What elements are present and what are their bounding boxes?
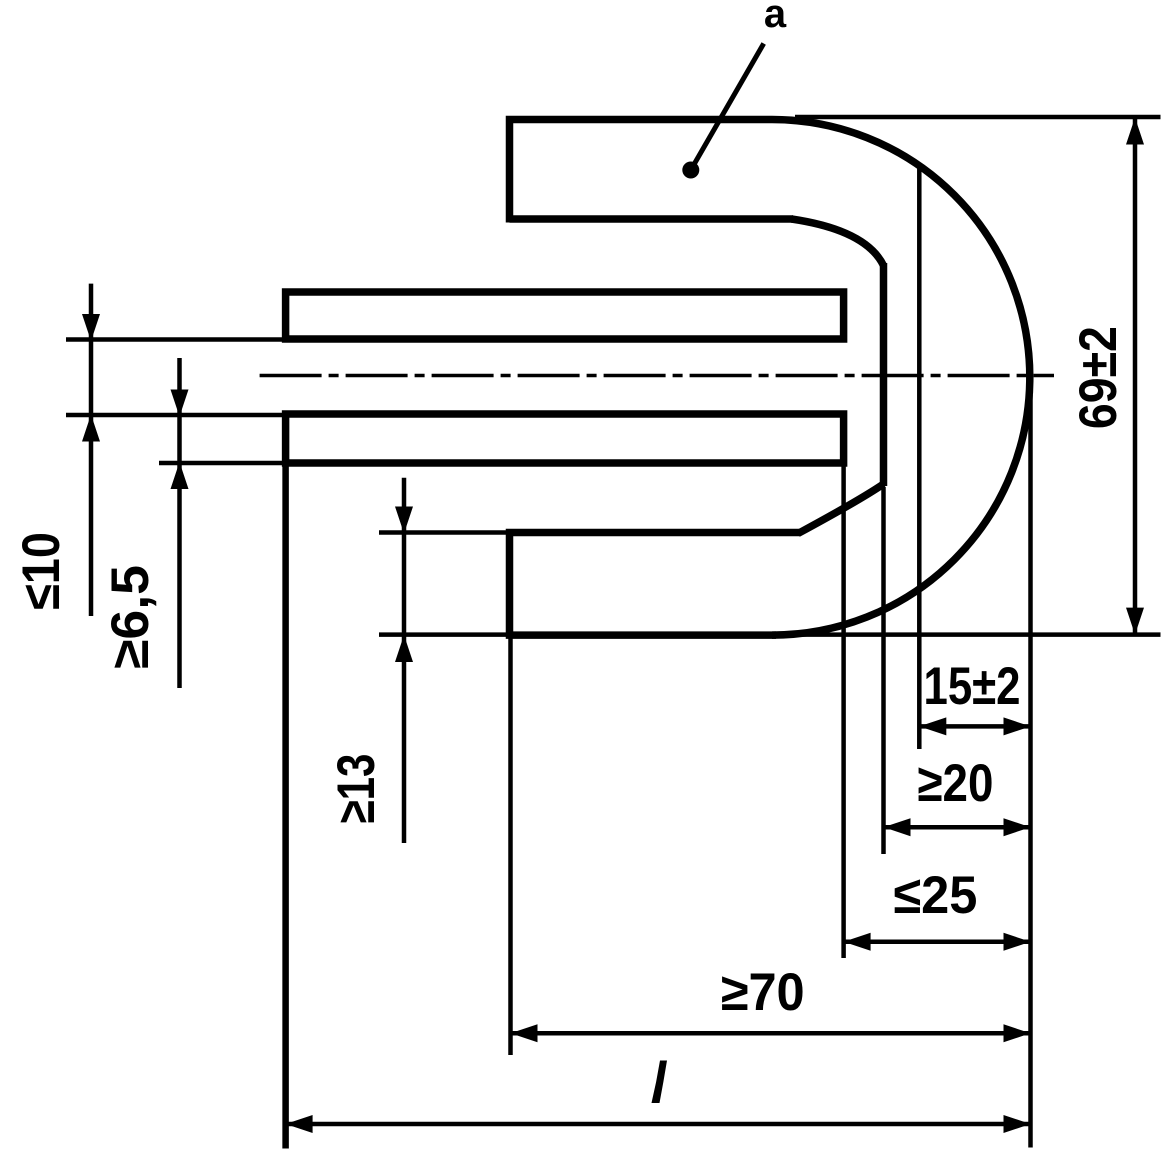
dimension line ≤10: [89, 284, 94, 616]
arrowhead 70 right: [1004, 1024, 1031, 1042]
arrowhead 69 bottom: [1126, 608, 1144, 635]
arrowhead 10 up: [82, 415, 100, 442]
extension line 70 left: [508, 638, 513, 1055]
arrowhead 20 right: [1004, 818, 1031, 836]
extension line 20 left: [881, 487, 886, 854]
dimension line l: [286, 1122, 1031, 1127]
left leg edge: [282, 414, 289, 1149]
extension line 13 top: [379, 530, 512, 535]
extension line top 69: [795, 115, 1161, 120]
svg-text:≥6,5: ≥6,5: [101, 565, 160, 669]
svg-text:≤25: ≤25: [893, 866, 977, 925]
svg-text:a: a: [764, 0, 787, 36]
arrowhead 13 up: [395, 635, 413, 662]
inner bottom fillet: [798, 484, 884, 534]
dimension line 69±2: [1133, 118, 1138, 635]
bottom arm of hook: [510, 533, 801, 636]
text l: [652, 1061, 668, 1104]
arrowhead l right: [1004, 1115, 1031, 1133]
outer arc of hook: [772, 120, 1030, 636]
extension line 10 top: [66, 337, 287, 342]
dimension line 15±2: [919, 724, 1030, 729]
extension line 25 left: [841, 466, 846, 958]
arrowhead 20 left: [884, 818, 911, 836]
arrowhead 10 down: [82, 314, 100, 341]
arrowhead 6,5 up: [171, 462, 189, 489]
arrowhead 13 down: [395, 507, 413, 534]
extension line 15 left: [917, 165, 922, 749]
extension line right common: [1028, 395, 1033, 1148]
arrowhead l left: [286, 1115, 313, 1133]
arrowhead 15 left: [919, 717, 946, 735]
svg-text:≥13: ≥13: [327, 754, 386, 824]
lower bar: [286, 414, 844, 463]
svg-text:15±2: 15±2: [924, 657, 1021, 716]
top arm of hook: [510, 120, 794, 223]
dimension line ≥70: [511, 1031, 1031, 1036]
extension line 10 bottom: [66, 413, 287, 418]
arrowhead 25 left: [844, 933, 871, 951]
leader line a: [682, 44, 763, 179]
inner top fillet: [792, 219, 884, 266]
svg-text:≥70: ≥70: [721, 963, 805, 1022]
arrowhead 6,5 down: [171, 390, 189, 417]
dimension line ≥20: [884, 825, 1031, 830]
dimension line ≥6,5: [177, 358, 182, 688]
svg-text:≥20: ≥20: [917, 754, 993, 813]
extension line 6,5 bottom: [159, 461, 287, 466]
arrowhead 25 right: [1004, 933, 1031, 951]
dimension line ≤25: [844, 940, 1031, 945]
upper bar: [286, 292, 844, 339]
svg-text:69±2: 69±2: [1069, 326, 1128, 429]
centerline: [260, 374, 1054, 378]
inner vertical edge: [880, 263, 888, 486]
arrowhead 69 top: [1126, 118, 1144, 145]
dimension line ≥13: [402, 478, 407, 843]
svg-text:≤10: ≤10: [12, 532, 71, 610]
arrowhead 15 right: [1004, 717, 1031, 735]
arrowhead 70 left: [511, 1024, 538, 1042]
extension line bottom 69 / 13: [379, 632, 1161, 637]
